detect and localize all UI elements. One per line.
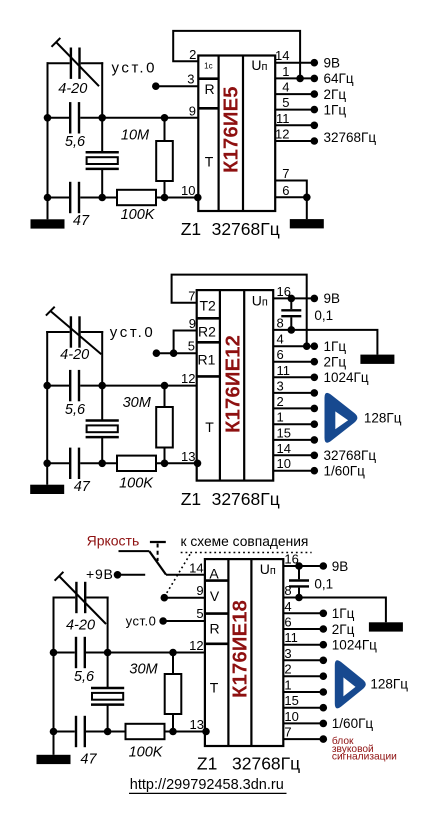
resistor 30M (circuit 2) [156,386,173,464]
wire: circuit 3 pin 4 stub [283,612,323,614]
label 30M (circuit 2) [123,395,152,411]
terminal dot +9В (circuit 3) [114,571,122,579]
net label блок звуковой сигнализации (circuit 3) [332,735,397,763]
node dot circuit1 row1 10M [161,114,169,122]
svg-text:A: A [209,565,219,581]
terminal dot pin 3 (circuit 2) [311,389,319,397]
svg-text:+9В: +9В [86,566,114,582]
IC К176ИЕ18 label Uп [260,561,276,577]
node dot circuit3 pin8 cap junction [295,594,303,602]
wire: circuit 1 pin 5 stub [275,109,314,111]
IC К176ИЕ5 label 1c [204,62,212,71]
wire: circuit 2 pin 3 stub [273,392,314,394]
trimmer capacitor 4-20 (circuit 3) arrow [55,572,106,624]
svg-text:32768Гц: 32768Гц [212,219,280,239]
IC К176ИЕ12 cell divider T2/R2 [197,317,220,320]
svg-text:9В: 9В [324,291,341,306]
pin 4 label (circuit 2) [277,332,284,347]
svg-text:10M: 10M [121,128,150,144]
wire: circuit 1 pin 1 stub [275,77,314,79]
pin 6 label (circuit 1) [282,183,289,198]
label +9В (circuit 3) [86,566,114,582]
wire: circuit 2 pin 8 stub [273,329,291,331]
pin 7 label (circuit 3) [284,725,291,740]
net label 1Гц (circuit 2) [324,339,347,354]
svg-text:11: 11 [284,630,298,645]
svg-text:6: 6 [277,347,284,362]
wire: circuit 2 row2 mid [80,462,117,464]
svg-text:T2: T2 [200,298,217,314]
IC К176ИЕ5 column divider 1 [218,56,220,212]
svg-text:1: 1 [284,678,291,693]
wire: circuit 1 crystal rail upper [101,118,103,153]
svg-text:32768Гц: 32768Гц [232,753,300,773]
label 5,6 (circuit 2) [65,402,86,418]
wire: circuit 3 left rail [53,597,55,732]
svg-text:Z1: Z1 [181,489,201,509]
wire: circuit 3 crystal rail upper [107,653,109,689]
svg-text:12: 12 [181,371,195,386]
svg-text:4: 4 [277,332,284,347]
label Z1 (circuit 3) [197,753,217,773]
terminal dot pin 15 (circuit 3) [320,704,328,712]
terminal dot pin 1 (circuit 2) [311,420,319,428]
pin 7 label (circuit 1) [282,166,289,181]
IC К176ИЕ12 column divider 1 [219,290,221,481]
node dot circuit1 row1 left [44,114,52,122]
svg-text:уст.0: уст.0 [126,614,157,629]
pin 5 label (circuit 3) [196,606,203,621]
wire: circuit 1 crystal rail lower [101,169,103,198]
wire: circuit 2 pin 16 stub [273,297,314,299]
ground (circuit 2 left) [30,463,64,494]
svg-text:100K: 100K [129,745,164,761]
label Z1 (circuit 1) [181,219,201,239]
svg-text:4-20: 4-20 [58,81,87,97]
wire: circuit 2 node row1 mid [80,385,102,387]
IC К176ИЕ5 label R [204,81,214,97]
wire: circuit 3 pin 1 stub [283,691,323,693]
IC К176ИЕ18 column divider 1 [227,559,229,746]
wire: circuit 2 pin9 wire [174,331,197,354]
IC К176ИЕ18 label R [209,621,219,637]
wire: circuit 3 pin8 to ground [299,598,386,623]
wire: circuit 2 pin5 wire [156,352,196,354]
svg-text:1c: 1c [204,62,212,71]
terminal dot pin 7 (circuit 3) [320,735,328,743]
pin 6 label (circuit 3) [284,615,291,630]
wire: circuit 2 node row1 left [47,385,69,387]
wire: circuit 2 pin 4 stub [273,345,314,347]
pin 11 label (circuit 2) [277,363,291,378]
pin 2 label (circuit 1) [189,47,196,62]
dashed link line (circuit 3) [181,552,312,554]
terminal dot pin 10 (circuit 3) [320,720,328,728]
terminal dot pin 1 (circuit 1) [311,75,319,83]
wire: circuit 1 pin 12 stub [275,140,314,142]
svg-text:9В: 9В [324,56,341,71]
svg-text:2: 2 [189,47,196,62]
capacitor 5,6 (circuit 3) [76,637,85,668]
terminal dot pin 5 (circuit 1) [311,106,319,114]
label 0,1 (circuit 3) [314,577,333,592]
node dot circuit2 pin13 [194,460,202,468]
label 100K (circuit 2) [119,476,154,492]
wire: circuit 3 pin 16 stub [283,565,323,567]
pin 1 label (circuit 2) [277,410,284,425]
crystal Z1 (circuit 1) [86,152,119,169]
svg-text:13: 13 [190,717,204,732]
resistor 100K (circuit 2) [117,456,156,471]
label Яркость (circuit 3) [87,532,140,548]
node dot circuit1 row2 10M [161,194,169,202]
svg-text:8: 8 [277,315,284,330]
wire: circuit 3 pin 10 stub [283,722,323,724]
IC К176ИЕ18 label V [210,588,220,604]
svg-text:R: R [209,621,219,637]
wire: circuit 2 row2 right (pin 13) [156,462,197,464]
pin 10 label (circuit 1) [181,183,195,198]
IC К176ИЕ18 cell divider A/V [205,579,229,582]
terminal dot pin 16 (circuit 3) [320,562,328,570]
net label 1024Гц (circuit 3) [332,638,377,653]
wire: circuit 2 pin12 wire [102,385,197,387]
pin 14 label (circuit 1) [275,48,289,63]
net label 2Гц (circuit 2) [324,355,347,370]
label 0,1 (circuit 2) [314,308,333,323]
net label 32768Гц (circuit 1) [324,130,377,145]
wire: circuit 1 trimmer top-left segment [47,62,70,64]
wire: circuit 1 left rail [47,62,49,197]
net label 1024Гц (circuit 2) [324,370,369,385]
switch button stem dashed (circuit 3) [157,544,159,562]
switch upper contact (circuit 3) [119,550,150,552]
ground (circuit 3 right) [369,622,403,631]
wire: circuit 2 left rail [46,331,48,463]
wire: circuit 1 pin9 wire [102,117,198,119]
op-amp U1 IC К176ИЕ5 body [198,56,275,212]
svg-text:1/60Гц: 1/60Гц [324,464,366,479]
IC К176ИЕ5 label Uп [251,57,267,73]
capacitor 0,1 (circuit 2) [281,298,301,330]
svg-text:4: 4 [282,80,289,95]
wire: circuit 1 right rail upper [101,62,103,118]
svg-text:0,1: 0,1 [314,577,333,592]
terminal dot pin 6 (circuit 3) [320,625,328,633]
wire: circuit 2 pin 11 stub [273,376,314,378]
svg-text:1024Гц: 1024Гц [332,638,377,653]
label 100K (circuit 1) [121,207,156,223]
buzzer symbol (circuit 3) [335,660,366,708]
label 32768Гц crystal (circuit 3) [232,753,300,773]
node dot circuit3 pin16 cap junction [295,562,303,570]
svg-text:3: 3 [187,72,194,87]
terminal dot pin 11 (circuit 2) [311,374,319,382]
pin 5 label (circuit 1) [282,95,289,110]
terminal dot pin 2 (circuit 3) [320,672,328,680]
wire: circuit 3 pin 15 stub [283,707,323,709]
terminal dot pin 4 (circuit 3) [320,610,328,618]
net label 32768Гц (circuit 2) [324,448,377,463]
crystal Z1 (circuit 2) [86,421,119,438]
IC К176ИЕ12 label T [205,419,214,435]
trimmer capacitor 4-20 (circuit 1) plates [71,48,80,79]
net label 128Гц (circuit 3) [370,677,408,692]
pin 14 label (circuit 3) [189,560,203,575]
svg-text:15: 15 [277,425,291,440]
wire: circuit 1 pin 6 stub [275,196,307,198]
wire: circuit 2 pin 2 stub [273,407,314,409]
label 30M (circuit 3) [129,662,158,678]
svg-text:R: R [204,81,214,97]
wire: circuit 1 row2 left [48,197,70,199]
wire: circuit 2 pin 6 stub [273,361,314,363]
terminal dot pin 4 (circuit 2) [311,342,319,350]
label 5,6 (circuit 3) [74,669,95,685]
node dot circuit3 row1 left [50,649,58,657]
wire: circuit 1 trimmer top-right segment [81,62,104,64]
wire: circuit 3 row2 right (pin 13) [165,731,205,733]
IC К176ИЕ12 cell divider R2/R1 [197,341,220,344]
pin 12 label (circuit 2) [181,371,195,386]
svg-text:9: 9 [196,583,203,598]
svg-text:6: 6 [282,183,289,198]
svg-text:10: 10 [181,183,195,198]
svg-text:9: 9 [189,316,196,331]
terminal dot pin 14 (circuit 1) [311,59,319,67]
node dot уст.0 (circuit 3) [159,617,167,625]
link http://299792458.3dn.ru [129,777,287,793]
svg-text:Яркость: Яркость [87,532,140,548]
IC name К176ИЕ12 [221,335,244,433]
label 47 (circuit 1) [73,213,90,229]
svg-text:64Гц: 64Гц [324,71,354,86]
terminal dot pin 11 (circuit 1) [311,122,319,130]
svg-text:5,6: 5,6 [65,134,86,150]
terminal dot pin 11 (circuit 3) [320,641,328,649]
IC К176ИЕ18 label A [209,565,219,581]
node dot circuit2 pin8 cap junction [288,326,296,334]
IC К176ИЕ18 cell divider R/T [205,642,229,645]
wire: circuit 3 right rail upper [107,597,109,653]
svg-text:2Гц: 2Гц [332,622,355,637]
wire: circuit 1 row2 mid [80,197,117,199]
wire: circuit 1 pin 4 stub [275,93,314,95]
svg-text:7: 7 [284,725,291,740]
net label 1/60Гц (circuit 3) [332,716,374,731]
svg-text:12: 12 [275,127,289,142]
pin 3 label (circuit 1) [187,72,194,87]
wire: circuit 2 row2 left [47,462,69,464]
pin 3 label (circuit 2) [277,378,284,393]
pin 12 label (circuit 3) [189,638,203,653]
svg-text:1: 1 [277,410,284,425]
resistor 100K (circuit 3) [126,724,165,739]
svg-text:14: 14 [277,441,291,456]
label 4-20 (circuit 3) [66,618,95,634]
node dot circuit2 row1 right [98,382,106,390]
wire: circuit 3 pin 3 stub [283,659,323,661]
wire: circuit 1 row2 right (pin 10) [156,197,198,199]
pin 12 label (circuit 1) [275,127,289,142]
svg-text:100K: 100K [121,207,156,223]
terminal dot pin 12 (circuit 1) [311,137,319,145]
wire: circuit 3 pin 11 stub [283,644,323,646]
terminal dot pin 10 (circuit 2) [311,467,319,475]
svg-text:128Гц: 128Гц [370,677,408,692]
pin 11 label (circuit 3) [284,630,298,645]
wire: circuit 2 trimmer top-left segment [46,331,69,333]
trimmer capacitor 4-20 (circuit 2) plates [71,316,80,347]
svg-text:2: 2 [284,662,291,677]
node dot circuit2 pin16 cap junction [288,295,296,303]
switch button cap (circuit 3) [150,541,166,543]
node dot circuit3 row2 30M [169,728,177,736]
svg-text:Z1: Z1 [181,219,201,239]
svg-text:Z1: Z1 [197,753,217,773]
svg-text:1024Гц: 1024Гц [324,370,369,385]
net label 128Гц (circuit 2) [364,410,402,425]
wire: circuit 3 crystal rail lower [107,705,109,732]
node dot circuit3 row2 left [50,728,58,736]
node dot circuit3 pin13 [202,728,210,736]
IC К176ИЕ5 label T [205,154,214,170]
svg-text:11: 11 [277,363,291,378]
svg-text:10: 10 [277,456,291,471]
label к схеме совпадения (circuit 3) [181,534,309,549]
svg-text:уст.0: уст.0 [112,60,158,77]
node dot circuit1 pin10 [194,194,202,202]
wire: circuit 3 row2 left [54,731,75,733]
capacitor 0,1 (circuit 3) [289,566,309,598]
pin 16 label (circuit 2) [277,284,291,299]
svg-text:47: 47 [74,479,91,495]
terminal dot pin 6 (circuit 2) [311,358,319,366]
switch lever (circuit 3) [149,551,166,574]
pin 8 label (circuit 3) [284,583,291,598]
svg-text:11: 11 [276,111,290,126]
node dot circuit1 pin6 [303,194,311,202]
wire: circuit 1 pin2 loop [173,31,300,79]
svg-text:1: 1 [282,64,289,79]
label Z1 (circuit 2) [181,489,201,509]
wire: circuit 1 node row1 left [48,117,70,119]
svg-text:14: 14 [189,560,203,575]
wire: circuit 3 pin12 wire [108,652,205,654]
wire: circuit 2 pin7 loop [172,275,307,347]
dashed link diagonal (circuit 3) [164,554,190,598]
trimmer capacitor 4-20 (circuit 2) arrow [46,307,101,355]
svg-text:1/60Гц: 1/60Гц [332,716,374,731]
pin 10 label (circuit 3) [284,709,298,724]
svg-text:128Гц: 128Гц [364,410,402,425]
pin 11 label (circuit 1) [276,111,290,126]
svg-text:К176ИЕ5: К176ИЕ5 [220,86,243,173]
wire: circuit 3 pin14 wire [166,574,205,576]
node dot circuit2 loop-pin4 [303,342,311,350]
svg-text:13: 13 [181,449,195,464]
net label 64Гц (circuit 1) [324,71,354,86]
svg-text:100K: 100K [119,476,154,492]
net label 9В (circuit 2) [324,291,341,306]
svg-text:32768Гц: 32768Гц [324,130,377,145]
wire: circuit 3 row2 mid [86,731,126,733]
ground (circuit 2 right) [360,355,394,364]
wire: circuit 2 right rail upper [101,331,103,386]
svg-text:47: 47 [80,752,97,768]
node dot circuit2 row2 30M [161,460,169,468]
svg-text:R1: R1 [198,352,216,368]
pin 7 label (circuit 2) [188,288,195,303]
terminal dot pin 14 (circuit 2) [311,452,319,460]
pin 10 label (circuit 2) [277,456,291,471]
svg-text:7: 7 [282,166,289,181]
pin 9 label (circuit 1) [189,103,196,118]
IC К176ИЕ18 cell divider V/R [205,612,229,615]
pin 9 label (circuit 3) [196,583,203,598]
label уст.0 (circuit 2) [110,324,156,341]
label 32768Гц crystal (circuit 2) [212,489,280,509]
label 100K (circuit 3) [129,745,164,761]
wire: circuit 3 +9В wire [118,574,146,576]
IC К176ИЕ12 column divider 2 [243,290,245,481]
svg-text:R2: R2 [198,324,216,340]
svg-text:2: 2 [277,394,284,409]
capacitor 47 (circuit 3) [76,716,85,747]
IC К176ИЕ18 body [205,559,283,746]
svg-text:9В: 9В [332,559,349,574]
svg-text:4-20: 4-20 [66,618,95,634]
svg-text:47: 47 [73,213,90,229]
node dot уст.0 (circuit 1) [152,82,160,90]
pin 8 label (circuit 2) [277,315,284,330]
wire: circuit 2 trimmer top-right segment [81,331,104,333]
node dot уст.0 (circuit 2) [153,349,161,357]
pin 1 label (circuit 1) [282,64,289,79]
svg-text:1Гц: 1Гц [324,102,347,117]
net label 1Гц (circuit 1) [324,102,347,117]
svg-text:к схеме совпадения: к схеме совпадения [181,534,309,549]
IC К176ИЕ18 column divider 2 [250,559,252,746]
wire: circuit 2 pin 14 stub [273,454,314,456]
svg-text:10: 10 [284,709,298,724]
svg-text:5,6: 5,6 [65,402,86,418]
terminal dot pin 2 (circuit 2) [311,405,319,413]
capacitor 47 (circuit 2) [70,448,79,479]
pin 15 label (circuit 2) [277,425,291,440]
svg-text:4-20: 4-20 [60,347,89,363]
IC К176ИЕ12 label T2 [200,298,217,314]
svg-text:уст.0: уст.0 [110,324,156,341]
svg-text:5: 5 [282,95,289,110]
node dot circuit2 row1 left [43,382,51,390]
svg-text:3: 3 [277,378,284,393]
node dot circuit3 row1 right [104,649,112,657]
wire: circuit 3 node row1 left [54,652,75,654]
terminal dot pin 4 (circuit 1) [311,90,319,98]
svg-text:30M: 30M [129,662,158,678]
wire: circuit 1 pin 14 stub [275,62,314,64]
svg-text:T: T [205,419,214,435]
svg-text:5,6: 5,6 [74,669,95,685]
svg-text:1Гц: 1Гц [332,606,355,621]
pin 2 label (circuit 2) [277,394,284,409]
wire: circuit 2 pin8 to ground [291,330,377,355]
trimmer capacitor 4-20 (circuit 3) plates [76,582,85,613]
svg-text:5: 5 [196,606,203,621]
net label 1Гц (circuit 3) [332,606,355,621]
node dot circuit2 row2 right [98,460,106,468]
